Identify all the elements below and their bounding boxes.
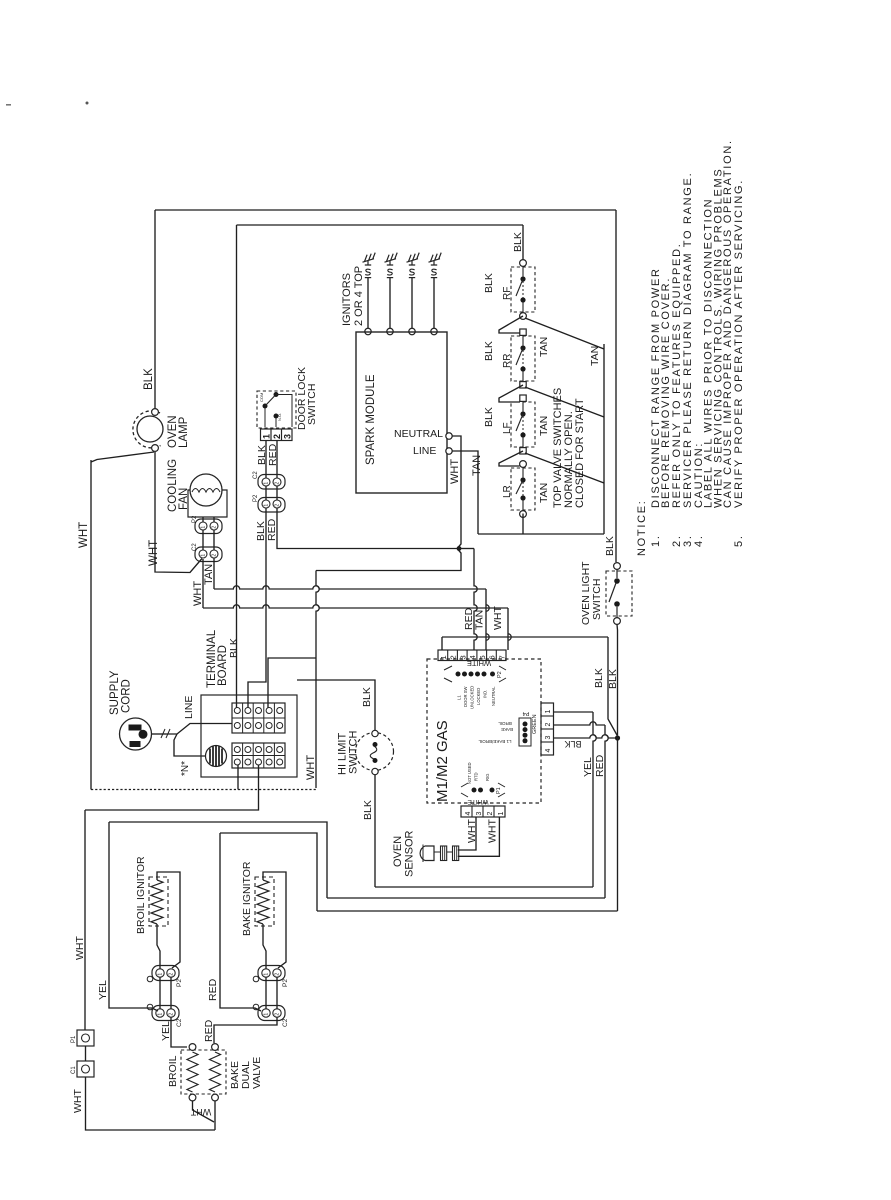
wire BLK to main junction bbox=[608, 637, 618, 736]
spark gap ignitor 2 bbox=[385, 253, 398, 278]
svg-text:BLK: BLK bbox=[483, 341, 495, 361]
svg-text:M1/M2 GAS: M1/M2 GAS bbox=[434, 720, 451, 802]
wire LINE to terminal board bbox=[166, 724, 232, 735]
spark gap ignitor 1 bbox=[363, 253, 376, 278]
wire cooling fan to P2 pin2 bbox=[213, 517, 215, 522]
broil valve coil bbox=[187, 1052, 198, 1092]
terminal block upper bbox=[232, 703, 285, 733]
svg-text:4: 4 bbox=[465, 812, 472, 816]
svg-text:1: 1 bbox=[264, 504, 270, 507]
svg-text:VERIFY PROPER OPERATION AFTER: VERIFY PROPER OPERATION AFTER SERVICING. bbox=[733, 179, 745, 508]
svg-text:TAN: TAN bbox=[589, 346, 601, 366]
svg-text:NEUTRAL: NEUTRAL bbox=[491, 686, 496, 706]
wire right rail BLK down to oven light switch bbox=[615, 210, 617, 562]
svg-text:C2: C2 bbox=[192, 543, 198, 551]
svg-text:1: 1 bbox=[262, 434, 272, 439]
svg-text:BLK: BLK bbox=[361, 687, 373, 707]
svg-text:2: 2 bbox=[545, 723, 552, 727]
wire door lock C2-P2 pin1 bbox=[265, 486, 267, 500]
svg-text:BLK: BLK bbox=[607, 669, 619, 689]
door lock switch bbox=[257, 391, 296, 428]
wire broil igniter top lead bbox=[157, 872, 180, 968]
svg-text:2: 2 bbox=[275, 1013, 281, 1016]
neutral lug bbox=[206, 746, 227, 767]
wire bake P2-C2 pin2 bbox=[276, 978, 278, 1009]
svg-text:YEL: YEL bbox=[160, 1021, 172, 1041]
svg-text:RIG: RIG bbox=[485, 774, 490, 781]
scan speck 2 bbox=[6, 104, 11, 106]
svg-text:L1 BAKE/BROIL: L1 BAKE/BROIL bbox=[478, 739, 512, 744]
svg-text:2: 2 bbox=[272, 434, 282, 439]
svg-text:2: 2 bbox=[275, 973, 281, 976]
svg-text:P1: P1 bbox=[71, 1035, 77, 1043]
svg-text:WHITE: WHITE bbox=[467, 659, 491, 668]
svg-text:BROIL: BROIL bbox=[498, 721, 512, 726]
svg-text:SPARK MODULE: SPARK MODULE bbox=[365, 374, 377, 465]
wire BLK oven lamp to top rail bbox=[154, 210, 156, 412]
terminal board bbox=[201, 695, 297, 777]
wire TAN bus bbox=[214, 586, 486, 589]
svg-text:RED: RED bbox=[203, 1019, 215, 1042]
svg-text:BLK: BLK bbox=[483, 407, 495, 427]
svg-text:TAN: TAN bbox=[538, 483, 550, 503]
svg-text:WHT: WHT bbox=[466, 819, 478, 843]
svg-text:3: 3 bbox=[545, 736, 552, 740]
wire YEL P4 cell1 bbox=[554, 711, 594, 713]
wire bake circuit riser bbox=[220, 833, 317, 911]
svg-text:2: 2 bbox=[212, 526, 218, 529]
wire TAN rail bottom bbox=[478, 533, 604, 535]
svg-text:SWITCH: SWITCH bbox=[591, 579, 603, 620]
switch RR bbox=[511, 329, 535, 388]
svg-text:WHT: WHT bbox=[148, 540, 160, 566]
wire broil igniter bottom lead bbox=[157, 924, 160, 969]
door lock terminal strip bbox=[261, 429, 293, 441]
terminal spark module output 1 bbox=[365, 328, 371, 334]
svg-text:6: 6 bbox=[488, 655, 497, 659]
wire WHT down to P1 bbox=[84, 810, 86, 1030]
svg-text:WHT: WHT bbox=[78, 522, 90, 548]
broil igniter resistor bbox=[151, 880, 163, 924]
wire LR to bottom rail bbox=[522, 514, 524, 535]
wire RED drop to cell4 bbox=[474, 549, 477, 651]
connector P2 broil igniter bbox=[147, 966, 179, 982]
svg-text:2: 2 bbox=[169, 973, 175, 976]
terminal C1 bbox=[77, 1061, 94, 1077]
wire BLK L1 drop to terminal board bbox=[236, 225, 238, 708]
oven sensor bbox=[420, 845, 459, 863]
svg-text:3: 3 bbox=[283, 434, 293, 439]
svg-text:SENSOR: SENSOR bbox=[404, 830, 416, 877]
wire BLK door lock cell1 down bbox=[265, 441, 267, 478]
wire LF to LR chain bbox=[499, 451, 523, 466]
svg-text:L1: L1 bbox=[457, 695, 462, 700]
svg-text:IGNITORS: IGNITORS bbox=[341, 273, 353, 326]
svg-text:NOT USED: NOT USED bbox=[467, 762, 472, 784]
wire RED down to bake C2 bbox=[220, 833, 261, 1011]
supply cord plug bbox=[120, 718, 152, 750]
wire YEL P4 down bbox=[593, 712, 596, 887]
svg-text:RED: RED bbox=[266, 518, 278, 541]
wire BLK main down right side bbox=[617, 738, 619, 911]
svg-text:1: 1 bbox=[439, 655, 448, 659]
control board M1/M2 GAS bbox=[427, 659, 541, 803]
strain relief marks bbox=[161, 729, 170, 738]
connector C2 bake igniter bbox=[253, 1004, 285, 1020]
bake valve coil bbox=[210, 1052, 221, 1092]
svg-text:BLK: BLK bbox=[362, 800, 374, 820]
svg-text:BROIL IGNITOR: BROIL IGNITOR bbox=[135, 856, 147, 934]
wire WHT neutral down-left bbox=[316, 550, 461, 571]
svg-text:*N*: *N* bbox=[180, 761, 191, 776]
wire bake valve to common bbox=[214, 1101, 216, 1130]
svg-text:RF: RF bbox=[502, 287, 513, 300]
svg-text:COM: COM bbox=[259, 393, 264, 402]
svg-text:BAKE IGNITOR: BAKE IGNITOR bbox=[241, 861, 253, 936]
wire bake igniter bottom lead bbox=[263, 924, 266, 969]
svg-text:LOCKED: LOCKED bbox=[476, 688, 481, 705]
svg-text:WHT: WHT bbox=[492, 606, 504, 630]
svg-text:TAN: TAN bbox=[474, 610, 486, 630]
wire WHT left rail down bbox=[90, 460, 92, 790]
svg-text:WHT: WHT bbox=[74, 936, 86, 960]
wire BLK cell1 to light switch bbox=[442, 636, 608, 638]
wire RED P4 down bbox=[605, 725, 608, 898]
wire WHT bus drop to cell7 bbox=[507, 608, 509, 650]
wire WHT sensor 1 bbox=[458, 817, 476, 850]
svg-text:CLOSED FOR START: CLOSED FOR START bbox=[574, 398, 586, 508]
svg-text:WHT: WHT bbox=[449, 459, 461, 484]
svg-text:BLK: BLK bbox=[564, 739, 581, 749]
wire WHT C1 to valve common bbox=[86, 1077, 216, 1130]
svg-text:RTD: RTD bbox=[474, 772, 479, 781]
svg-text:BROIL: BROIL bbox=[167, 1055, 179, 1087]
connector C2 broil igniter bbox=[147, 1004, 179, 1020]
svg-text:BLK: BLK bbox=[483, 273, 495, 293]
wire WHT left rail bottom run bbox=[91, 789, 316, 791]
svg-text:TAN: TAN bbox=[538, 337, 550, 357]
svg-text:BLK: BLK bbox=[228, 638, 240, 658]
svg-text:WHITE: WHITE bbox=[467, 798, 489, 805]
oven lamp bbox=[133, 409, 163, 452]
svg-text:5: 5 bbox=[478, 655, 487, 659]
wire WHT lamp to left rail bbox=[91, 452, 154, 462]
svg-text:P2: P2 bbox=[253, 494, 259, 502]
connector strip M1/M2 bottom bbox=[461, 806, 505, 817]
spark gap ignitor 3 bbox=[407, 253, 420, 278]
wire bus line1 hi-limit to P4 bbox=[375, 886, 593, 888]
wire WHT lamp down to cooling fan bbox=[155, 452, 202, 573]
svg-text:OVEN: OVEN bbox=[392, 836, 404, 867]
wire supply cord lead bbox=[152, 733, 166, 735]
wire WHT neutral drop to board bbox=[316, 571, 319, 789]
svg-text:1: 1 bbox=[201, 554, 207, 557]
svg-text:NEUTRAL: NEUTRAL bbox=[394, 428, 443, 440]
wire TAN bus drop to cell5 bbox=[485, 589, 487, 650]
svg-text:BLK: BLK bbox=[143, 368, 155, 390]
wire broil P2-C2 pin2 bbox=[170, 978, 172, 1009]
bake igniter box bbox=[255, 877, 274, 926]
svg-text:WHT: WHT bbox=[72, 1089, 84, 1113]
svg-text:LINE: LINE bbox=[413, 445, 436, 457]
bake igniter resistor bbox=[257, 880, 269, 924]
spark module U1 bbox=[356, 332, 447, 493]
wire BLK board to hi-limit bbox=[297, 680, 375, 730]
svg-text:FAN: FAN bbox=[178, 488, 190, 510]
wire YEL broil C2 to valve bbox=[171, 1018, 187, 1048]
wire RR branch to TAN rail bbox=[525, 387, 604, 417]
svg-text:TAN: TAN bbox=[203, 564, 215, 585]
svg-text:WHT: WHT bbox=[305, 755, 317, 780]
wire WHT lower block to left rail bbox=[237, 765, 239, 790]
svg-text:1: 1 bbox=[498, 812, 505, 816]
svg-text:1: 1 bbox=[264, 482, 270, 485]
svg-text:LAMP: LAMP bbox=[178, 416, 190, 448]
wire RED bake C2 to valve bbox=[214, 1018, 277, 1044]
svg-text:LINE: LINE bbox=[183, 696, 195, 719]
svg-text:GREEN: GREEN bbox=[532, 714, 538, 734]
wire WHT bus bbox=[203, 605, 508, 608]
wire BLK feed to RF switch bbox=[522, 225, 524, 262]
terminal spark module output 4 bbox=[431, 328, 437, 334]
pin row P1 M1/M2 bbox=[461, 783, 505, 797]
svg-text:SUPPLY: SUPPLY bbox=[109, 670, 121, 715]
svg-text:LR: LR bbox=[502, 485, 513, 498]
wire P2 to C2 fan pin1 bbox=[202, 530, 204, 550]
wire LF branch to TAN rail bbox=[525, 453, 604, 483]
svg-text:P2: P2 bbox=[282, 979, 289, 987]
notice text block bbox=[636, 139, 745, 556]
connector C2 door lock bbox=[258, 475, 285, 490]
wire RED junction to cell4 bbox=[458, 548, 474, 550]
wire WHT branch to terminal board bbox=[268, 658, 316, 708]
svg-text:1.: 1. bbox=[650, 534, 662, 547]
svg-text:TAN: TAN bbox=[538, 416, 550, 436]
wire BLK hi-limit lower bbox=[374, 775, 376, 887]
wire broil P2-C2 pin1 bbox=[159, 978, 161, 1009]
svg-text:1: 1 bbox=[545, 710, 552, 714]
svg-text:1: 1 bbox=[264, 1013, 270, 1016]
wire YEL riser left bbox=[109, 822, 327, 898]
svg-text:1: 1 bbox=[264, 973, 270, 976]
wire cooling fan to P2 pin1 bbox=[202, 517, 204, 522]
svg-text:N.O.: N.O. bbox=[277, 413, 282, 421]
svg-text:3: 3 bbox=[476, 812, 483, 816]
wire bake P2-C2 pin1 bbox=[265, 978, 267, 1009]
wire spark module output 2 bbox=[389, 278, 391, 329]
wire RED door lock to junction bbox=[277, 508, 458, 549]
svg-text:C2: C2 bbox=[176, 1018, 183, 1027]
svg-text:2: 2 bbox=[487, 812, 494, 816]
svg-text:P4: P4 bbox=[523, 710, 530, 716]
svg-text:IND.: IND. bbox=[483, 690, 488, 698]
junction WHT-RED node bbox=[457, 546, 462, 551]
svg-text:C2: C2 bbox=[253, 471, 259, 479]
bump TAN over WHT bus bbox=[486, 605, 489, 611]
spark gap ignitor 4 bbox=[429, 253, 442, 278]
svg-text:TAN: TAN bbox=[471, 455, 483, 476]
svg-text:YEL: YEL bbox=[582, 757, 594, 777]
broil igniter box bbox=[149, 877, 168, 926]
svg-text:2: 2 bbox=[449, 655, 458, 659]
connector P4 M1/M2 bbox=[541, 703, 554, 755]
svg-text:4.: 4. bbox=[693, 534, 705, 547]
svg-text:P2: P2 bbox=[192, 515, 198, 523]
svg-text:1: 1 bbox=[158, 973, 164, 976]
wire door lock C2-P2 pin2 bbox=[276, 486, 278, 500]
svg-text:1: 1 bbox=[201, 526, 207, 529]
wire P2 to C2 fan pin2 bbox=[213, 530, 215, 550]
bump TAN over BLK wire bbox=[486, 634, 489, 640]
wire RED door lock cell2 down bbox=[276, 441, 278, 478]
connector P2 door lock bbox=[258, 498, 285, 513]
svg-text:P1: P1 bbox=[496, 787, 502, 794]
svg-text:SWITCH: SWITCH bbox=[306, 384, 318, 425]
svg-text:2 OR 4 TOP: 2 OR 4 TOP bbox=[353, 266, 365, 326]
bump WHT over BLK wire bbox=[508, 634, 511, 640]
wire RR to LF chain bbox=[499, 385, 523, 402]
svg-text:BAKE: BAKE bbox=[501, 727, 513, 732]
hi limit switch bbox=[356, 730, 394, 774]
svg-text:5.: 5. bbox=[733, 534, 745, 547]
wire RF branch to TAN rail bbox=[525, 318, 604, 349]
junction BLK main node bbox=[615, 735, 620, 740]
svg-text:UNLOCKED: UNLOCKED bbox=[470, 686, 475, 709]
wire lower block to P1 run bbox=[85, 765, 259, 810]
svg-text:RR: RR bbox=[502, 354, 513, 368]
wire bus line2 bbox=[327, 897, 605, 899]
wire bus line3 bbox=[317, 910, 618, 912]
switch RF bbox=[511, 260, 535, 320]
connector P2 bake igniter bbox=[253, 966, 285, 982]
wire RED P4 cell2 bbox=[554, 722, 606, 725]
connector C2 cooling fan bbox=[195, 547, 222, 562]
terminal P1 bbox=[77, 1030, 94, 1046]
svg-text:NOTICE:: NOTICE: bbox=[636, 499, 648, 556]
svg-text:RED: RED bbox=[594, 754, 606, 777]
wire BLK light switch lower bbox=[616, 625, 619, 736]
svg-text:WHT: WHT bbox=[190, 1107, 211, 1117]
svg-text:C2: C2 bbox=[282, 1018, 289, 1027]
svg-text:1: 1 bbox=[158, 1013, 164, 1016]
terminal block lower bbox=[232, 743, 285, 768]
svg-text:4: 4 bbox=[545, 749, 552, 753]
svg-text:RED: RED bbox=[267, 443, 279, 466]
wire spark module output 4 bbox=[433, 278, 435, 329]
wire YEL down to broil C2 bbox=[109, 822, 158, 1011]
pin dots P4 bbox=[519, 718, 531, 746]
wire spark module output 1 bbox=[367, 278, 369, 329]
svg-text:DOOR SW: DOOR SW bbox=[463, 686, 468, 707]
svg-text:CORD: CORD bbox=[121, 679, 133, 713]
connector P2 cooling fan bbox=[195, 519, 222, 534]
scan speck 1 bbox=[86, 102, 89, 105]
svg-text:2: 2 bbox=[169, 1013, 175, 1016]
svg-text:RED: RED bbox=[207, 978, 219, 1001]
svg-text:WHT: WHT bbox=[487, 819, 499, 843]
svg-text:C1: C1 bbox=[71, 1066, 77, 1074]
wire TAN fan C2 pin2 to bus bbox=[213, 558, 215, 589]
broil-bake dual valve bbox=[181, 1044, 226, 1101]
connector strip M1/M2 top bbox=[438, 650, 506, 661]
wire BLK cell1 run bbox=[441, 637, 443, 650]
wire spark module output 3 bbox=[411, 278, 413, 329]
svg-text:YEL: YEL bbox=[97, 980, 109, 1000]
wire WHT spark neutral bbox=[452, 436, 461, 548]
wire broil valve common bbox=[193, 1101, 215, 1122]
svg-text:2: 2 bbox=[275, 482, 281, 485]
svg-text:BLK: BLK bbox=[512, 232, 524, 252]
wire RF to RR chain bbox=[499, 316, 523, 333]
svg-text:2: 2 bbox=[212, 554, 218, 557]
wire BLK P4 cell3 to junction bbox=[554, 735, 616, 738]
svg-text:3: 3 bbox=[458, 655, 467, 659]
wire TAN rail right bbox=[603, 344, 605, 534]
wire BLK door lock to terminal board bbox=[248, 508, 266, 708]
terminal spark module output 3 bbox=[409, 328, 415, 334]
oven light switch bbox=[606, 563, 632, 625]
wire TAN spark line bbox=[452, 451, 478, 534]
svg-text:P2: P2 bbox=[176, 979, 183, 987]
svg-text:LF: LF bbox=[502, 422, 513, 434]
switch LR bbox=[511, 461, 535, 518]
wire second top rail BLK bbox=[237, 224, 524, 226]
wire P1 to C1 bbox=[85, 1046, 87, 1061]
svg-text:7: 7 bbox=[497, 655, 506, 659]
svg-text:SWITCH: SWITCH bbox=[348, 731, 360, 774]
terminal spark module output 2 bbox=[387, 328, 393, 334]
pin row P2 M1/M2 bbox=[444, 666, 506, 682]
wire top rail BLK L1 upper bbox=[155, 209, 616, 211]
switch LF bbox=[511, 395, 535, 454]
wire WHT sensor 2 bbox=[458, 817, 500, 856]
wire bake igniter top lead bbox=[263, 872, 286, 968]
wire N to neutral lug bbox=[174, 734, 205, 756]
wire WHT fan C2 pin1 to bus bbox=[202, 559, 204, 608]
svg-text:BLK: BLK bbox=[593, 668, 605, 688]
terminal spark module LINE bbox=[446, 448, 452, 454]
terminal spark module NEUTRAL bbox=[446, 433, 452, 439]
cooling fan bbox=[188, 474, 227, 517]
svg-text:BLK: BLK bbox=[604, 536, 616, 556]
svg-text:P2: P2 bbox=[497, 671, 503, 678]
svg-text:VALVE: VALVE bbox=[251, 1057, 263, 1089]
svg-text:4: 4 bbox=[468, 655, 477, 659]
svg-text:2: 2 bbox=[275, 504, 281, 507]
